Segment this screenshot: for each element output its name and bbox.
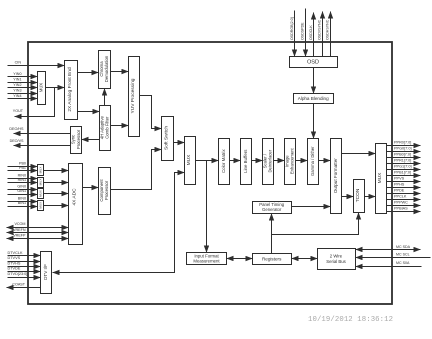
svg-text:Component: Component: [99, 179, 104, 202]
svg-text:YIN2: YIN2: [13, 83, 21, 87]
svg-text:YUV Processing: YUV Processing: [130, 78, 136, 113]
svg-text:VREFP: VREFP: [13, 234, 26, 238]
svg-text:Soft Switch: Soft Switch: [164, 126, 170, 150]
svg-text:MUX: MUX: [186, 154, 192, 165]
svg-text:MUX: MUX: [377, 172, 383, 183]
svg-text:YIN1: YIN1: [13, 78, 21, 82]
svg-text:BIN0: BIN0: [18, 197, 26, 201]
svg-text:Generator: Generator: [262, 207, 282, 212]
svg-text:Gamma / Dither: Gamma / Dither: [310, 146, 315, 176]
svg-text:OSDSPDE: OSDSPDE: [300, 22, 304, 40]
svg-text:YOUT: YOUT: [13, 109, 24, 113]
svg-text:DTVHS: DTVHS: [8, 261, 21, 265]
svg-text:4H Adaptive: 4H Adaptive: [99, 116, 104, 140]
svg-text:Deinterlacer: Deinterlacer: [268, 149, 273, 172]
svg-text:DTVCLK: DTVCLK: [8, 251, 23, 255]
svg-text:MUX: MUX: [39, 202, 43, 209]
svg-text:Color Matrix: Color Matrix: [221, 149, 226, 173]
svg-text:PPG1[7:0]: PPG1[7:0]: [394, 164, 412, 168]
svg-text:MC SDA: MC SDA: [396, 245, 411, 249]
svg-text:Enhancement: Enhancement: [290, 147, 295, 174]
svg-text:Sync: Sync: [71, 134, 76, 144]
svg-text:MUX: MUX: [39, 167, 43, 174]
svg-text:Line Buffers: Line Buffers: [243, 149, 248, 173]
svg-text:PPDE: PPDE: [394, 188, 405, 192]
svg-text:Measurement: Measurement: [193, 259, 220, 264]
svg-text:VREFN: VREFN: [13, 228, 26, 232]
svg-text:YIN0: YIN0: [13, 72, 21, 76]
svg-text:PPVS: PPVS: [394, 176, 405, 180]
svg-text:DTVVS: DTVVS: [8, 256, 21, 260]
svg-text:GIN0: GIN0: [17, 185, 26, 189]
svg-text:BIN1: BIN1: [18, 201, 26, 205]
svg-text:OSDVSYNC: OSDVSYNC: [317, 19, 321, 40]
svg-text:PPB1[7:0]: PPB1[7:0]: [394, 170, 411, 174]
svg-text:Processor: Processor: [104, 180, 109, 200]
svg-text:PPR1[7:0]: PPR1[7:0]: [394, 158, 411, 162]
svg-text:PPHS: PPHS: [394, 182, 405, 186]
svg-text:YIN3: YIN3: [13, 89, 21, 93]
svg-text:YIN4: YIN4: [13, 94, 21, 98]
svg-text:TCON: TCON: [355, 188, 361, 202]
svg-text:PPB0[7:0]: PPB0[7:0]: [394, 152, 411, 156]
svg-text:Alpha Blending: Alpha Blending: [298, 96, 329, 101]
svg-text:DTVD[23:0]: DTVD[23:0]: [8, 272, 28, 276]
svg-text:MC S0A: MC S0A: [396, 261, 410, 265]
svg-text:DEO/VS: DEO/VS: [10, 139, 24, 143]
svg-text:MUX: MUX: [39, 179, 43, 186]
svg-text:OSDCLK: OSDCLK: [309, 25, 313, 40]
svg-text:Comb Filter: Comb Filter: [105, 116, 110, 139]
svg-text:CIN: CIN: [15, 61, 22, 65]
svg-text:Processor: Processor: [76, 129, 81, 149]
svg-text:VCOM: VCOM: [14, 222, 25, 226]
svg-text:PPBIAS: PPBIAS: [394, 206, 408, 210]
svg-text:DTVDE: DTVDE: [8, 267, 21, 271]
svg-text:Output Formatter: Output Formatter: [333, 158, 338, 193]
svg-text:DEO/HS: DEO/HS: [9, 127, 24, 131]
svg-text:Chroma: Chroma: [99, 61, 104, 77]
svg-text:PB1: PB1: [19, 166, 26, 170]
svg-text:4X ADC: 4X ADC: [72, 188, 78, 206]
svg-text:GIN1: GIN1: [17, 189, 26, 193]
svg-text:Demodulation: Demodulation: [104, 55, 109, 82]
svg-text:PPR0[7:0]: PPR0[7:0]: [394, 140, 411, 144]
svg-text:COAST: COAST: [12, 283, 25, 287]
svg-text:10/19/2012 18:36:12: 10/19/2012 18:36:12: [308, 316, 393, 324]
svg-text:OSD: OSD: [307, 59, 319, 65]
svg-text:2X Analog Front End: 2X Analog Front End: [67, 67, 73, 112]
svg-text:MUX: MUX: [39, 190, 43, 197]
svg-text:Serial Bus: Serial Bus: [326, 259, 346, 264]
svg-text:MC SCL: MC SCL: [396, 253, 410, 257]
svg-text:MUX: MUX: [39, 83, 44, 93]
svg-text:OSDRGB[2:0]: OSDRGB[2:0]: [290, 17, 294, 40]
svg-text:PPCLK: PPCLK: [394, 194, 407, 198]
svg-text:OSDHSYNC: OSDHSYNC: [326, 19, 330, 40]
svg-text:PPG0[7:0]: PPG0[7:0]: [394, 146, 412, 150]
svg-text:DTV I/F: DTV I/F: [43, 264, 48, 280]
svg-text:RIN1: RIN1: [18, 178, 26, 182]
svg-text:Registers: Registers: [262, 256, 282, 261]
svg-text:PPPWC: PPPWC: [394, 200, 408, 204]
